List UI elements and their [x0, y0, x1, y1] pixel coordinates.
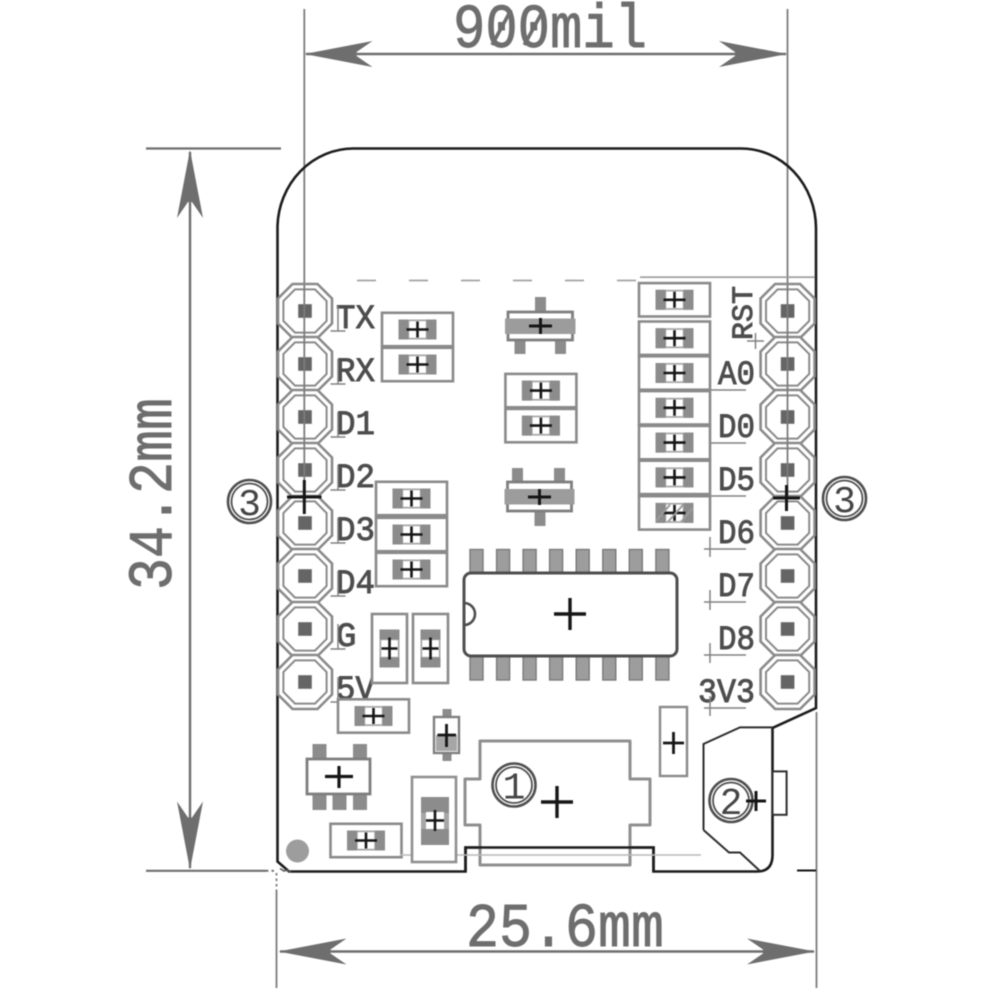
dim extension line left (25.6mm) — [276, 873, 278, 988]
right pin header pads RST..3V3 — [761, 284, 815, 709]
transistor Q1 (SOT-23) — [505, 297, 576, 354]
capacitor C1 vertical — [412, 777, 456, 862]
right pin label ticks — [704, 378, 746, 716]
right column resistor RC6 — [639, 461, 710, 494]
IC U1 (SOIC-16) — [464, 550, 677, 681]
right column resistor RC2 — [639, 322, 710, 355]
svg-text:3: 3 — [238, 484, 261, 527]
dimension text 34.2mm — [119, 398, 190, 590]
circled number 1 — [493, 764, 536, 811]
hairline across bottom — [400, 854, 701, 856]
circled number 3 (right) — [823, 477, 866, 524]
right column resistor RC7 — [639, 496, 710, 529]
right pin label RST (rotated) — [728, 286, 764, 349]
origin cross left header — [287, 480, 322, 514]
resistor R-RX — [382, 348, 453, 381]
via dot — [286, 840, 309, 863]
board corner marks bottom-left — [280, 869, 291, 873]
reset button SW1 outline — [704, 727, 773, 871]
left pin label ticks — [331, 306, 346, 702]
svg-text:D1: D1 — [336, 407, 375, 445]
svg-text:D3: D3 — [336, 513, 375, 551]
board edge notch restroke — [466, 848, 654, 872]
circled number 3 (left) — [228, 480, 271, 527]
dimension line 900mil — [305, 41, 788, 67]
resistor bank R1 — [376, 482, 447, 515]
dim tick top (34.2mm) — [146, 147, 281, 149]
regulator U2 (SOT-23-5) — [307, 744, 370, 810]
svg-text:34.2mm: 34.2mm — [119, 398, 190, 590]
svg-text:900mil: 900mil — [453, 0, 647, 66]
dim extension line left (900mil) — [303, 9, 305, 300]
svg-text:2: 2 — [720, 783, 743, 826]
USB connector J1 — [465, 741, 650, 865]
dimension text 25.6mm — [466, 894, 664, 965]
pin row centerline left — [303, 285, 305, 497]
reset button actuator — [773, 771, 787, 814]
right column resistor RC5 — [639, 426, 710, 459]
svg-text:RX: RX — [336, 354, 375, 392]
right pin labels — [698, 357, 755, 713]
dimension line 34.2mm — [177, 150, 203, 870]
resistor R-TX — [382, 313, 453, 346]
vertical resistor G2 — [413, 614, 448, 683]
dashed construction line top of components — [357, 277, 815, 280]
middle resistor pair B — [505, 409, 576, 442]
circled number 2 — [710, 779, 767, 826]
svg-text:3: 3 — [833, 481, 856, 524]
pin row centerline right — [787, 285, 789, 497]
transistor Q2 (SOT-23) — [505, 468, 575, 526]
left pin header pads TX..5V — [278, 284, 332, 709]
resistor near 5V — [338, 699, 409, 732]
dim extension line right (900mil) — [787, 9, 789, 296]
right column resistor RC1 — [639, 283, 710, 316]
dim extension line right (25.6mm) — [816, 712, 818, 988]
svg-text:25.6mm: 25.6mm — [466, 894, 664, 965]
dimension text 900mil — [453, 0, 647, 66]
resistor bottom-left — [331, 824, 402, 857]
svg-text:D2: D2 — [336, 460, 375, 498]
diode D1 small — [434, 709, 459, 761]
right column resistor RC4 — [639, 391, 710, 424]
origin cross right header — [773, 485, 800, 511]
resistor bank R2 — [376, 518, 447, 551]
dimension line 25.6mm — [279, 939, 816, 965]
left pin labels — [336, 301, 376, 710]
right column resistor RC3 — [639, 356, 710, 389]
svg-text:TX: TX — [336, 301, 375, 339]
PCB board outline — [278, 149, 817, 872]
component slim rect with cross — [660, 707, 687, 776]
dim tick bottom (34.2mm) — [146, 870, 277, 872]
vertical resistor G1 — [372, 614, 407, 683]
svg-text:G: G — [336, 619, 356, 657]
svg-text:D4: D4 — [336, 566, 375, 604]
svg-text:1: 1 — [503, 768, 526, 811]
resistor bank R3 — [376, 553, 447, 586]
middle resistor pair A — [505, 374, 576, 407]
svg-text:RST: RST — [728, 286, 762, 340]
